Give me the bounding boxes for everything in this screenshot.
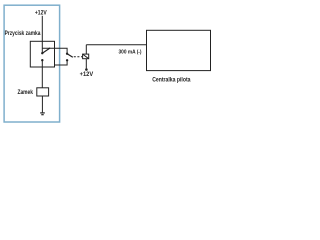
node S2 upper contact [66,53,68,55]
svg-text:300 mA (-): 300 mA (-) [119,50,142,56]
wire coil bottom [85,59,87,69]
svg-text:+12V: +12V [80,72,94,78]
enclosure box (door module) [4,5,60,122]
svg-text:Zamek: Zamek [18,90,34,96]
lock actuator Zamek body [37,88,49,96]
wire S2 return to block [55,60,68,65]
box Centralka pilota [147,30,211,70]
switch S1 arm [42,48,50,53]
wire S1 lower contact to Zamek [41,60,43,88]
terminal +12V dot [85,68,88,71]
svg-text:+12V: +12V [35,11,47,17]
ground bar 2 [41,114,43,116]
node S1 lower contact [41,59,43,61]
ground bar 1 [40,112,45,114]
wire coil top [85,45,87,54]
relay coil K1 diagonal [83,54,89,59]
svg-text:Centralka pilota: Centralka pilota [152,76,191,83]
mechanical link (dashed) [74,56,83,58]
wire Zamek to ground [41,96,43,112]
svg-text:Przycisk zamka: Przycisk zamka [5,31,41,37]
relay coil K1 body [83,54,89,59]
wire to centralka [86,44,146,46]
wire branch to S2 [42,48,67,53]
switch S2 arm [67,54,73,58]
node S2 lower contact [66,59,68,61]
wire +12V feed [41,16,43,53]
switch block S1 outline [30,41,54,67]
node S1 upper contact [41,52,43,54]
